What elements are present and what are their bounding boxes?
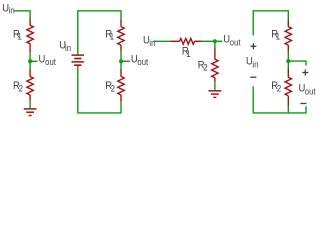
label R1 (circuit 3) (182, 46, 191, 59)
svg-text:in: in (65, 43, 71, 54)
wire R1 to R2 (circuit 4) (287, 51, 289, 69)
wire node down to R2 (circuit 3) (214, 41, 216, 49)
resistor R2 (circuit 3) (212, 49, 218, 82)
svg-text:in: in (9, 5, 15, 16)
svg-text:in: in (252, 59, 258, 70)
label R2 (circuit 3) (198, 60, 208, 73)
label R1 (circuit 4) (271, 29, 280, 42)
wire loop top (circuit 4) (253, 11, 288, 35)
minus sign of source (circuit 4) (250, 76, 256, 78)
wire source to bottom loop (circuit 4) (253, 86, 306, 113)
svg-text:1: 1 (186, 48, 191, 59)
ground (circuit 3) (209, 91, 222, 98)
node Uin label (circuit 3) (143, 35, 156, 48)
node Uout label (circuit 4) (299, 83, 317, 97)
svg-text:2: 2 (203, 62, 208, 73)
node Uout label (circuit 1) (39, 54, 57, 68)
svg-text:out: out (230, 37, 241, 48)
node junction dot (circuit 1) (28, 59, 32, 63)
label R1 (circuit 2) (105, 29, 114, 42)
svg-text:2: 2 (19, 83, 24, 94)
label R1 (circuit 1) (13, 29, 22, 42)
node Uin label (circuit 4) (246, 56, 259, 70)
wire loop top (circuit 2) (78, 11, 121, 55)
resistor R1 (circuit 4) (285, 20, 291, 51)
wire stub to Uout (circuit 1) (30, 60, 37, 62)
resistor R2 (circuit 4) (285, 68, 291, 106)
wire stub to + terminal (circuit 4) (288, 61, 306, 66)
svg-text:out: out (137, 57, 148, 68)
svg-text:in: in (149, 38, 155, 49)
node Uout label (circuit 2) (131, 54, 149, 68)
label R2 (circuit 1) (13, 81, 23, 94)
svg-text:out: out (305, 86, 316, 97)
node Uin label (circuit 1) (2, 3, 15, 16)
wire R1 to R2 (circuit 2) (120, 51, 122, 70)
node junction dot (circuit 3) (213, 39, 217, 43)
wire Uin to R1 (circuit 1) (14, 11, 30, 19)
ground (circuit 1) (24, 109, 37, 116)
svg-text:2: 2 (277, 83, 282, 94)
wire battery to bottom loop (circuit 2) (78, 66, 121, 113)
label R2 (circuit 4) (271, 81, 281, 94)
resistor R2 (circuit 1) (27, 69, 33, 100)
minus sign of output (circuit 4) (300, 103, 306, 105)
node junction dot (circuit 2) (119, 59, 123, 63)
wire R2 to bottom loop (circuit 4) (287, 106, 289, 113)
svg-text:U: U (39, 54, 46, 66)
plus sign of output (circuit 4) (302, 70, 308, 76)
resistor R1 (circuit 2) (118, 20, 124, 51)
wire R1 to node (circuit 3) (202, 40, 215, 42)
resistor R2 (circuit 2) (118, 69, 124, 101)
wire stub to Uout (circuit 3) (215, 40, 223, 42)
resistor R1 (circuit 3) (171, 38, 202, 44)
svg-text:1: 1 (17, 31, 22, 42)
wire Uin to R1 (circuit 3) (153, 40, 171, 42)
wire R2 to ground (circuit 1) (29, 100, 31, 108)
node junction dot (circuit 4) (286, 59, 290, 63)
wire R2 to ground (circuit 3) (214, 81, 216, 90)
wire stub to Uout (circuit 2) (121, 60, 130, 62)
svg-text:out: out (45, 57, 56, 68)
wire R1 to R2 (circuit 1) (29, 52, 31, 70)
node Uout label (circuit 3) (223, 34, 241, 48)
node Uin label (circuit 2) (59, 40, 71, 54)
resistor R1 (circuit 1) (27, 18, 33, 51)
plus sign of source (circuit 4) (250, 43, 256, 49)
label R2 (circuit 2) (105, 81, 115, 94)
battery U (circuit 2) (72, 55, 85, 65)
svg-text:1: 1 (276, 31, 281, 42)
svg-text:1: 1 (110, 31, 115, 42)
svg-text:2: 2 (111, 83, 116, 94)
